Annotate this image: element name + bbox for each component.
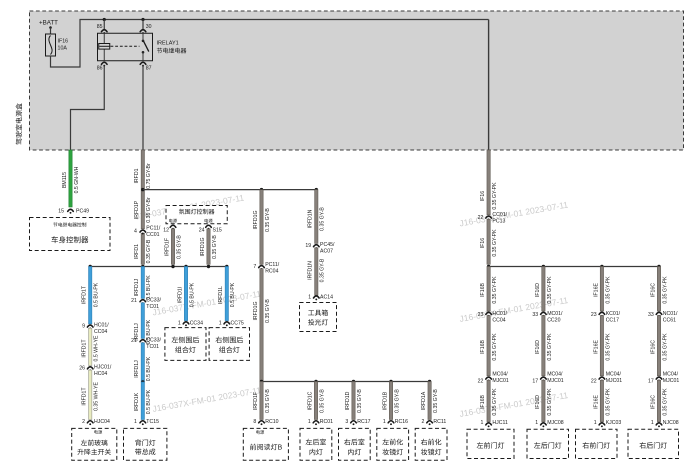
svg-text:1: 1 [383,419,386,425]
svg-text:HJC04: HJC04 [94,419,110,425]
svg-text:HC01/: HC01/ [492,311,507,317]
svg-text:IF16: IF16 [58,39,69,45]
svg-text:0.5 BU-PK: 0.5 BU-PK [146,275,152,300]
svg-text:NJC08: NJC08 [663,420,679,426]
svg-text:RC10: RC10 [265,419,278,425]
svg-text:IF16D: IF16D [535,283,541,297]
svg-text:CC04: CC04 [94,329,107,335]
svg-text:9: 9 [82,323,85,329]
svg-text:IRFD1B: IRFD1B [382,391,388,410]
svg-text:PC49: PC49 [76,208,89,214]
svg-text:33: 33 [532,312,538,318]
svg-text:8: 8 [253,419,256,425]
svg-text:0.5 BU-PK: 0.5 BU-PK [94,282,100,307]
svg-text:KJC03: KJC03 [606,420,622,426]
svg-text:RC16: RC16 [395,419,408,425]
svg-text:0.35 GY-PK: 0.35 GY-PK [662,388,668,416]
svg-text:3: 3 [345,419,348,425]
svg-text:HJC11: HJC11 [492,420,508,426]
svg-text:0.35 GY-B: 0.35 GY-B [265,299,271,323]
svg-text:IRFD1T: IRFD1T [82,285,88,304]
svg-text:0.35 GY-B: 0.35 GY-B [265,208,271,232]
svg-text:0.35 GY-PK: 0.35 GY-PK [662,333,668,361]
svg-text:RC04: RC04 [265,268,278,274]
svg-text:IF16E: IF16E [593,340,599,354]
svg-text:0.35 GY-PK: 0.35 GY-PK [605,276,611,304]
svg-text:1: 1 [535,420,538,426]
svg-text:IF16: IF16 [480,191,486,201]
svg-text:CC17: CC17 [606,317,619,323]
svg-text:+BATT: +BATT [39,20,58,27]
svg-text:AC07: AC07 [320,249,333,255]
svg-text:0.35 GY-PK: 0.35 GY-PK [605,388,611,416]
svg-text:0.35 GY-B: 0.35 GY-B [433,389,439,413]
svg-text:0.35 GY-Br: 0.35 GY-Br [146,197,152,223]
svg-text:IF16C: IF16C [650,283,656,297]
svg-text:MJC01: MJC01 [663,378,680,384]
svg-text:15: 15 [58,208,64,214]
svg-text:IRFD1C: IRFD1C [307,391,313,410]
svg-text:TC15: TC15 [146,419,159,425]
svg-text:86: 86 [97,65,103,71]
svg-text:RC01: RC01 [320,419,333,425]
svg-text:IRFD1L: IRFD1L [218,286,224,304]
svg-text:22: 22 [478,215,484,221]
svg-text:87: 87 [146,65,152,71]
svg-text:IRFD1: IRFD1 [134,244,140,259]
svg-text:22: 22 [591,378,597,384]
svg-text:0.75 GY-Br: 0.75 GY-Br [146,163,152,189]
svg-text:0.35 GY-PK: 0.35 GY-PK [492,182,498,210]
svg-text:IRFD1F: IRFD1F [164,238,170,256]
svg-text:MC04/: MC04/ [492,371,508,377]
svg-text:0.35 GY-B: 0.35 GY-B [212,235,218,259]
svg-text:1: 1 [178,320,181,326]
svg-text:0.35 GY-B: 0.35 GY-B [146,239,152,263]
svg-text:0.5 GN-WH: 0.5 GN-WH [74,166,80,193]
svg-text:21: 21 [131,298,137,304]
svg-text:MC04/: MC04/ [606,371,622,377]
svg-text:0.35 GY-PK: 0.35 GY-PK [547,276,553,304]
svg-text:0.35 GY-PK: 0.35 GY-PK [605,333,611,361]
svg-text:0.35 GY-B: 0.35 GY-B [320,258,326,282]
svg-text:22: 22 [478,378,484,384]
svg-text:23: 23 [478,312,484,318]
svg-text:2: 2 [82,419,85,425]
svg-text:17: 17 [532,378,538,384]
svg-text:HC04: HC04 [94,371,107,377]
svg-text:RC17: RC17 [357,419,370,425]
svg-text:19: 19 [305,243,311,249]
svg-text:IF16E: IF16E [593,395,599,409]
svg-text:23: 23 [591,312,597,318]
svg-text:IF16B: IF16B [480,283,486,297]
svg-text:CC75: CC75 [231,320,244,326]
svg-text:PC45/: PC45/ [320,242,335,248]
svg-text:0.35 GY-B: 0.35 GY-B [357,389,363,413]
svg-text:KC01/: KC01/ [606,311,621,317]
svg-text:IRFD1D: IRFD1D [345,391,351,410]
svg-text:BM115: BM115 [62,172,68,188]
svg-text:0.35 GY-PK: 0.35 GY-PK [492,388,498,416]
svg-text:30: 30 [146,24,152,30]
svg-text:1: 1 [219,320,222,326]
svg-text:IRFD1J: IRFD1J [134,278,140,296]
svg-text:IRFD1: IRFD1 [134,168,140,183]
svg-text:MJC01: MJC01 [606,378,623,384]
svg-text:CC20: CC20 [547,317,560,323]
svg-text:21: 21 [131,338,137,344]
svg-text:IRFD1N: IRFD1N [308,209,314,228]
svg-text:MJC01: MJC01 [547,378,564,384]
svg-text:CC04: CC04 [492,317,505,323]
svg-text:IRFD1T: IRFD1T [82,387,88,406]
svg-text:IRFD1I: IRFD1I [177,287,183,303]
svg-text:HC01/: HC01/ [94,323,109,329]
svg-text:CC01/: CC01/ [492,212,507,218]
svg-text:IRFD1A: IRFD1A [421,391,427,410]
svg-text:CC61: CC61 [663,317,676,323]
svg-text:1: 1 [308,294,311,300]
svg-text:RC11: RC11 [433,419,446,425]
svg-text:IRFD1G: IRFD1G [253,301,259,320]
svg-text:0.5 WH-YE: 0.5 WH-YE [94,335,100,361]
svg-text:0.35 GY-B: 0.35 GY-B [176,235,182,259]
svg-text:0.35 GY-B: 0.35 GY-B [394,389,400,413]
svg-text:IRFD1G: IRFD1G [200,237,206,256]
svg-text:0.35 GY-PK: 0.35 GY-PK [492,333,498,361]
svg-text:MC04/: MC04/ [663,371,679,377]
svg-text:0.5 BU-PK: 0.5 BU-PK [146,356,152,381]
svg-text:2: 2 [422,419,425,425]
svg-text:MJC08: MJC08 [547,420,564,426]
svg-text:12: 12 [163,228,169,234]
svg-text:1: 1 [651,420,654,426]
svg-text:1: 1 [594,420,597,426]
svg-text:CC33/: CC33/ [146,337,161,343]
svg-text:IF16C: IF16C [650,395,656,409]
svg-text:IRFD1J: IRFD1J [134,360,140,378]
svg-text:PC11/: PC11/ [265,262,280,268]
svg-text:0.35 WH-YE: 0.35 WH-YE [94,382,100,411]
svg-text:0.35 GY-PK: 0.35 GY-PK [662,276,668,304]
svg-text:HJC01/: HJC01/ [94,365,112,371]
svg-text:IRFD1G: IRFD1G [253,210,259,229]
svg-text:IF16C: IF16C [650,340,656,354]
svg-text:1: 1 [134,419,137,425]
svg-text:0.35 GY-B: 0.35 GY-B [320,207,326,231]
svg-text:0.35 GY-PK: 0.35 GY-PK [492,229,498,257]
svg-text:IRFD1F: IRFD1F [253,392,259,410]
svg-text:IF16D: IF16D [535,340,541,354]
svg-text:0.5 BU-PK: 0.5 BU-PK [230,282,236,307]
svg-text:IF16B: IF16B [480,340,486,354]
svg-text:TC01: TC01 [146,344,159,350]
svg-text:0.5 BU-PK: 0.5 BU-PK [189,282,195,307]
svg-text:IF16B: IF16B [480,395,486,409]
svg-text:0.35 GY-B: 0.35 GY-B [319,389,325,413]
svg-text:MC04/: MC04/ [547,371,563,377]
svg-text:0.35 GY-PK: 0.35 GY-PK [547,388,553,416]
svg-text:7: 7 [253,264,256,270]
svg-text:0.5 BU-PK: 0.5 BU-PK [146,389,152,414]
svg-text:IF16: IF16 [480,238,486,248]
svg-text:10A: 10A [58,46,68,52]
svg-text:26: 26 [79,365,85,371]
svg-text:NC01/: NC01/ [663,311,678,317]
svg-text:IRFD1P: IRFD1P [134,200,140,219]
svg-text:17: 17 [648,378,654,384]
svg-text:85: 85 [97,24,103,30]
svg-text:MC01/: MC01/ [547,311,563,317]
svg-text:PC13: PC13 [492,219,505,225]
svg-text:33: 33 [648,312,654,318]
svg-text:CC33/: CC33/ [146,297,161,303]
svg-text:0.35 GY-B: 0.35 GY-B [265,389,271,413]
svg-text:0.35 GY-PK: 0.35 GY-PK [492,276,498,304]
svg-text:IF16D: IF16D [535,395,541,409]
svg-text:1: 1 [308,419,311,425]
svg-text:PC11/: PC11/ [146,226,161,232]
svg-text:4: 4 [134,229,137,235]
svg-text:IF16E: IF16E [593,283,599,297]
svg-text:MJC01: MJC01 [492,378,509,384]
svg-text:IRFD1K: IRFD1K [134,392,140,411]
svg-text:AC14: AC14 [320,294,333,300]
svg-text:TC01: TC01 [146,304,159,310]
svg-text:CC34: CC34 [190,320,203,326]
svg-text:1: 1 [481,420,484,426]
svg-text:24: 24 [199,228,205,234]
svg-text:S15: S15 [213,228,222,234]
svg-text:IRFD1N: IRFD1N [308,261,314,280]
svg-text:CC01: CC01 [146,232,159,238]
svg-text:IRELAY1: IRELAY1 [157,41,179,47]
svg-text:IRFD1T: IRFD1T [82,339,88,358]
svg-text:0.35 GY-PK: 0.35 GY-PK [547,333,553,361]
